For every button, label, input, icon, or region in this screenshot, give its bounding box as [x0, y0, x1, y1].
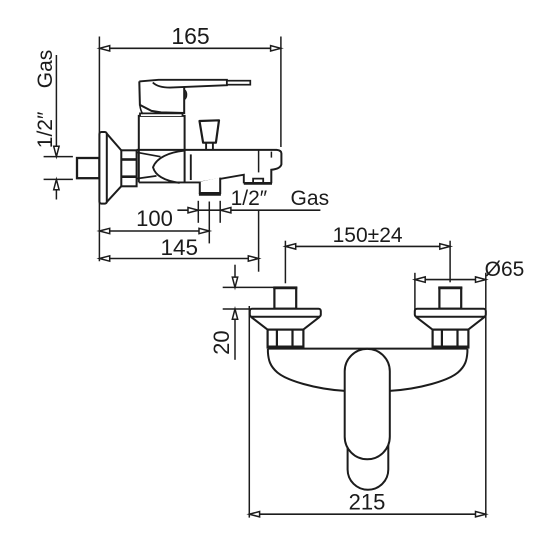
spout bottom contour: notch wall + slant + body bottom	[139, 175, 244, 184]
arrow right of dim Ø65	[476, 277, 486, 282]
right nut facet lines	[442, 330, 458, 348]
right union flange band	[415, 309, 486, 317]
dimension 100 line	[99, 230, 209, 232]
wire: left extension of Ø65	[414, 273, 416, 311]
dimension 215 line	[249, 513, 485, 515]
svg-text:Ø65: Ø65	[485, 258, 525, 281]
arrow right of dim 100	[199, 228, 209, 233]
handle body	[139, 81, 184, 113]
diverter stem	[206, 143, 213, 150]
diverter knob	[200, 120, 220, 142]
dimension line of outlet 1/2 Gas	[177, 209, 320, 211]
dimension 1/2 Gas vertical leader lower	[55, 179, 57, 199]
spout top edge + tip right edge + notch right wall	[137, 150, 282, 183]
svg-text:20: 20	[209, 330, 234, 354]
faucet body (cartridge housing, side)	[139, 116, 185, 182]
wire: bottom extension line of vertical 1/2 dim	[44, 178, 73, 180]
dimension 1/2 Gas vertical leader upper	[55, 55, 57, 157]
arrow left of dim 165	[99, 46, 109, 51]
left union threaded stub	[274, 288, 296, 309]
body top edge	[268, 348, 468, 350]
inlet pipe top line	[137, 152, 160, 156]
svg-text:150±24: 150±24	[333, 224, 403, 247]
handle column upper capsule (front)	[345, 349, 390, 459]
right union hex nut	[433, 330, 469, 348]
wire: shared right extension (Ø65 + 215)	[485, 273, 487, 518]
hex nut facet band lower	[121, 175, 136, 178]
arrow down of 1/2 dim	[54, 146, 59, 156]
wire: right extension line of dim 165 (spout tip)	[280, 37, 282, 148]
handle set screw bump	[184, 90, 186, 100]
arrow right of dim 215	[476, 512, 486, 517]
wire: wall extension line (left extension for dims 165/100/145)	[98, 37, 100, 262]
wire: aerator extension line (dim 145 right)	[258, 211, 260, 272]
arrow right of dim 145	[248, 256, 258, 261]
arrow left-pointing at outlet right edge	[221, 208, 231, 213]
wire: right extension of 150±24	[449, 241, 451, 283]
lever tip bar	[227, 81, 250, 85]
wire: left extension of 150±24	[284, 241, 286, 284]
spout tip seam tick	[270, 152, 272, 158]
svg-text:100: 100	[136, 206, 173, 231]
wire: bottom extension of dim 20	[223, 308, 250, 310]
wall flange plate (escutcheon, side)	[99, 132, 106, 204]
hex nut facet band upper	[121, 158, 136, 161]
dimension 165 line	[99, 47, 281, 49]
left union hex nut	[268, 330, 304, 348]
dimension 20 leader upper	[234, 265, 236, 288]
wire: outlet center extension line	[208, 202, 210, 244]
lower capsule top cover (hide seam)	[349, 426, 387, 434]
inlet pipe bottom line	[137, 176, 157, 179]
dimension 150±24 line	[285, 245, 450, 247]
left union flange band	[250, 309, 321, 317]
arrow left of dim 150±24	[285, 244, 295, 249]
aerator center line (inside spout)	[258, 150, 260, 172]
dimension 20 leader lower	[234, 309, 236, 360]
right stub thick top edge	[438, 287, 462, 290]
spout lower capsule (front)	[348, 425, 389, 490]
dimension 145 line	[99, 258, 258, 260]
wall nipple (threaded connector)	[77, 158, 99, 178]
arrow left of dim 215	[249, 512, 259, 517]
arrow left of dim Ø65	[415, 277, 425, 282]
shower outlet (1/2 Gas, below spout)	[200, 178, 220, 193]
wire: top extension line of vertical 1/2 dim	[44, 156, 73, 158]
lever top edge	[139, 80, 227, 88]
dimension Ø65 line	[415, 279, 486, 281]
wire: outlet left extension line	[197, 201, 199, 223]
inlet nose (bullet) inside body	[153, 151, 184, 183]
arrow right of dim 165	[271, 46, 281, 51]
arrow down of dim 20	[232, 277, 237, 287]
right nut thick bottom	[433, 345, 469, 348]
right union cone sides	[416, 317, 485, 330]
left stub thick top edge	[273, 287, 297, 290]
left nut thick bottom	[268, 345, 304, 348]
spout underside flat (thick) near tip	[244, 182, 272, 185]
svg-text:145: 145	[161, 235, 199, 260]
flange cone upper slant	[107, 134, 122, 151]
left union cone sides	[251, 317, 320, 330]
cartridge collar	[140, 113, 183, 116]
svg-text:165: 165	[171, 23, 209, 49]
handle rear corner silhouette	[140, 105, 143, 114]
wire: top extension of dim 20	[223, 286, 275, 288]
wire: outlet right extension line	[219, 201, 221, 223]
flange cone lower slant	[107, 186, 122, 202]
hex nut (side view)	[121, 150, 136, 186]
body left wing outline	[268, 349, 345, 391]
shower outlet thick bottom	[199, 193, 221, 196]
arrow right of dim 150±24	[440, 244, 450, 249]
arrow up of dim 20	[232, 309, 237, 319]
svg-text:215: 215	[349, 490, 386, 515]
spout seam line	[190, 154, 192, 180]
arrow up of 1/2 dim	[54, 179, 59, 189]
arrow left of dim 100	[99, 228, 109, 233]
svg-text:1/2″ Gas: 1/2″ Gas	[231, 187, 329, 210]
arrow left of dim 145	[99, 256, 109, 261]
svg-text:1/2″ Gas: 1/2″ Gas	[34, 50, 57, 148]
wire: left extension of dim 215	[248, 306, 250, 518]
arrow right-pointing at outlet left edge	[188, 208, 198, 213]
body right wing outline	[390, 349, 468, 391]
left nut facet lines	[277, 330, 293, 348]
aerator insert box	[253, 179, 263, 183]
right union threaded stub	[439, 288, 461, 309]
